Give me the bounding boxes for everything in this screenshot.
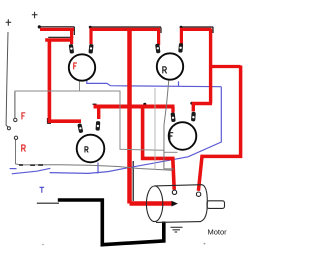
svg-text:Motor: Motor	[208, 228, 228, 237]
